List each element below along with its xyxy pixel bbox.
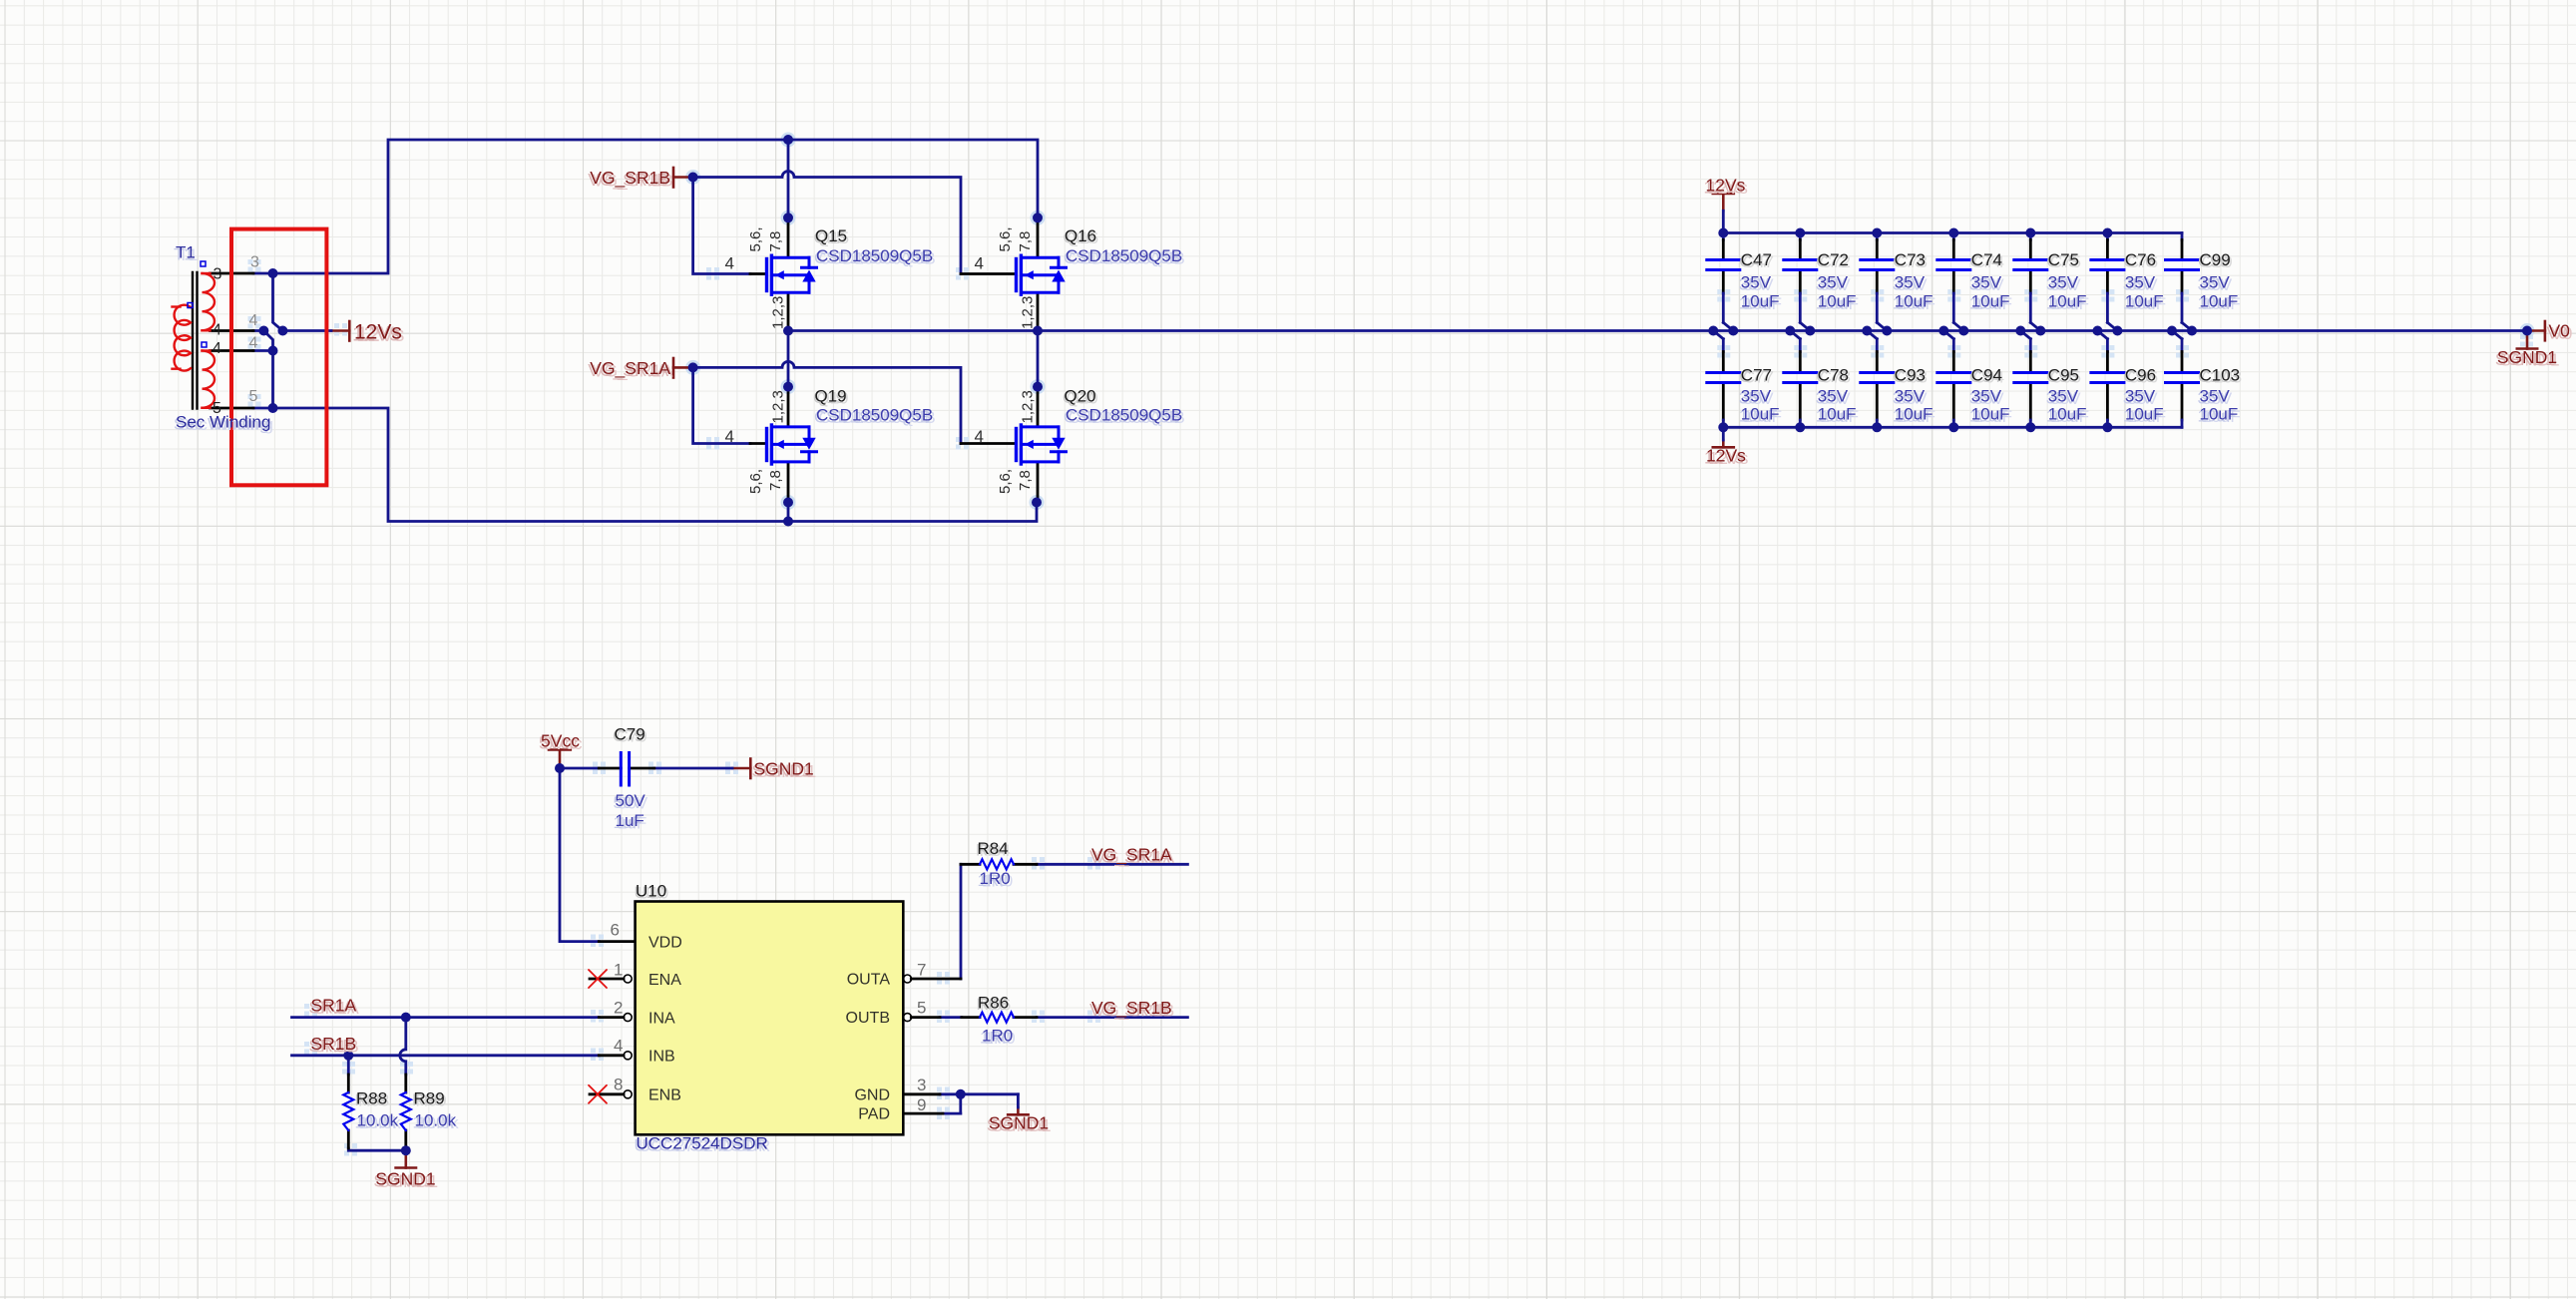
svg-text:10uF: 10uF [1971,405,2010,424]
svg-text:10uF: 10uF [2048,292,2087,311]
svg-text:1,2,3: 1,2,3 [1020,296,1037,329]
svg-text:INA: INA [648,1011,675,1028]
svg-text:Q16: Q16 [1065,226,1096,245]
svg-text:9: 9 [917,1095,926,1114]
svg-text:5: 5 [249,388,258,405]
svg-text:Q20: Q20 [1065,387,1096,406]
svg-text:VG_SR1B: VG_SR1B [1091,998,1172,1019]
svg-text:10uF: 10uF [1895,292,1933,311]
svg-text:C75: C75 [2048,250,2079,269]
svg-text:5,6,: 5,6, [747,226,764,251]
svg-text:10uF: 10uF [1741,292,1780,311]
svg-text:35V: 35V [2200,387,2231,406]
svg-text:OUTA: OUTA [847,972,891,989]
svg-text:4: 4 [975,254,984,273]
svg-text:C72: C72 [1818,250,1849,269]
svg-text:3: 3 [214,266,222,283]
svg-text:R88: R88 [356,1089,387,1108]
svg-text:OUTB: OUTB [846,1010,890,1027]
svg-text:10uF: 10uF [1818,292,1857,311]
svg-text:VG_SR1A: VG_SR1A [1091,844,1172,865]
svg-text:SR1B: SR1B [311,1034,357,1054]
svg-text:12Vs: 12Vs [1706,176,1746,196]
svg-text:5: 5 [917,999,926,1018]
svg-text:V0: V0 [2549,321,2571,341]
svg-text:2: 2 [614,999,623,1018]
svg-text:R84: R84 [978,839,1009,858]
svg-text:C47: C47 [1741,250,1772,269]
svg-text:Sec Winding: Sec Winding [176,413,270,432]
svg-text:35V: 35V [2125,387,2156,406]
svg-text:35V: 35V [2048,387,2079,406]
svg-text:7,8: 7,8 [1017,470,1034,491]
svg-text:3: 3 [250,254,259,271]
svg-text:5Vcc: 5Vcc [541,731,580,751]
svg-text:1,2,3: 1,2,3 [770,390,787,423]
svg-text:CSD18509Q5B: CSD18509Q5B [816,406,933,425]
svg-text:1R0: 1R0 [982,1027,1013,1046]
svg-text:7,8: 7,8 [767,231,784,252]
svg-text:6: 6 [611,921,620,940]
svg-text:10uF: 10uF [1741,405,1780,424]
svg-text:C78: C78 [1818,366,1849,385]
svg-text:4: 4 [213,322,221,339]
svg-text:35V: 35V [1741,387,1772,406]
svg-text:4: 4 [725,427,734,446]
svg-text:SGND1: SGND1 [754,759,814,779]
svg-text:10.0k: 10.0k [415,1111,457,1130]
svg-text:C79: C79 [615,725,645,744]
svg-text:CSD18509Q5B: CSD18509Q5B [1066,246,1182,265]
svg-text:4: 4 [249,335,258,352]
svg-text:ENB: ENB [648,1087,681,1104]
svg-text:3: 3 [917,1076,926,1094]
svg-text:35V: 35V [1895,387,1926,406]
svg-text:U10: U10 [636,882,666,901]
svg-text:7,8: 7,8 [1017,231,1034,252]
svg-text:4: 4 [213,340,221,357]
svg-text:10uF: 10uF [1971,292,2010,311]
svg-text:5,6,: 5,6, [747,469,764,494]
svg-text:C76: C76 [2125,250,2156,269]
svg-text:35V: 35V [2048,273,2079,292]
svg-text:4: 4 [725,254,734,273]
svg-text:1R0: 1R0 [980,869,1011,888]
svg-text:VG_SR1B: VG_SR1B [590,168,670,189]
svg-text:SR1A: SR1A [311,996,357,1016]
svg-text:35V: 35V [2125,273,2156,292]
svg-text:4: 4 [975,427,984,446]
svg-text:10uF: 10uF [2200,405,2239,424]
svg-text:35V: 35V [1818,387,1849,406]
svg-text:7: 7 [917,961,926,980]
svg-text:Q15: Q15 [815,226,847,245]
svg-text:5,6,: 5,6, [997,469,1014,494]
svg-text:CSD18509Q5B: CSD18509Q5B [816,246,933,265]
svg-text:ENA: ENA [648,972,681,989]
svg-text:10uF: 10uF [2125,405,2164,424]
svg-text:1: 1 [614,961,623,980]
svg-text:4: 4 [249,312,258,329]
svg-text:35V: 35V [2200,273,2231,292]
svg-text:SGND1: SGND1 [375,1169,435,1189]
svg-text:1,2,3: 1,2,3 [1020,390,1037,423]
svg-text:10.0k: 10.0k [357,1111,399,1130]
svg-text:T1: T1 [176,243,196,262]
svg-text:UCC27524DSDR: UCC27524DSDR [637,1134,768,1153]
svg-text:C95: C95 [2048,366,2079,385]
svg-text:C73: C73 [1895,250,1926,269]
svg-text:INB: INB [648,1049,675,1066]
svg-text:C99: C99 [2200,250,2231,269]
svg-text:10uF: 10uF [2048,405,2087,424]
svg-text:5: 5 [213,400,221,417]
svg-text:Q19: Q19 [815,387,847,406]
svg-text:CSD18509Q5B: CSD18509Q5B [1066,406,1182,425]
svg-text:C94: C94 [1971,366,2002,385]
svg-text:10uF: 10uF [2200,292,2239,311]
svg-text:50V: 50V [616,791,646,810]
svg-text:C74: C74 [1971,250,2002,269]
svg-text:R89: R89 [414,1089,445,1108]
svg-text:GND: GND [854,1087,890,1104]
svg-text:R86: R86 [978,994,1009,1013]
svg-text:12Vs: 12Vs [354,321,402,344]
svg-text:35V: 35V [1741,273,1772,292]
svg-text:35V: 35V [1971,387,2002,406]
svg-text:35V: 35V [1971,273,2002,292]
svg-text:35V: 35V [1895,273,1926,292]
svg-text:10uF: 10uF [2125,292,2164,311]
svg-text:SGND1: SGND1 [989,1113,1049,1133]
svg-text:SGND1: SGND1 [2497,347,2557,367]
svg-text:10uF: 10uF [1818,405,1857,424]
svg-text:C103: C103 [2200,366,2241,385]
svg-text:10uF: 10uF [1895,405,1933,424]
svg-text:12Vs: 12Vs [1706,446,1746,466]
svg-text:C77: C77 [1741,366,1772,385]
svg-text:1,2,3: 1,2,3 [770,296,787,329]
svg-text:C96: C96 [2125,366,2156,385]
svg-text:VDD: VDD [648,935,682,952]
svg-text:8: 8 [614,1076,623,1094]
svg-text:PAD: PAD [858,1106,890,1123]
svg-text:7,8: 7,8 [767,470,784,491]
svg-text:C93: C93 [1895,366,1926,385]
svg-text:5,6,: 5,6, [997,226,1014,251]
svg-text:35V: 35V [1818,273,1849,292]
svg-text:VG_SR1A: VG_SR1A [590,358,670,379]
svg-text:1uF: 1uF [616,811,644,830]
svg-text:4: 4 [614,1037,623,1056]
